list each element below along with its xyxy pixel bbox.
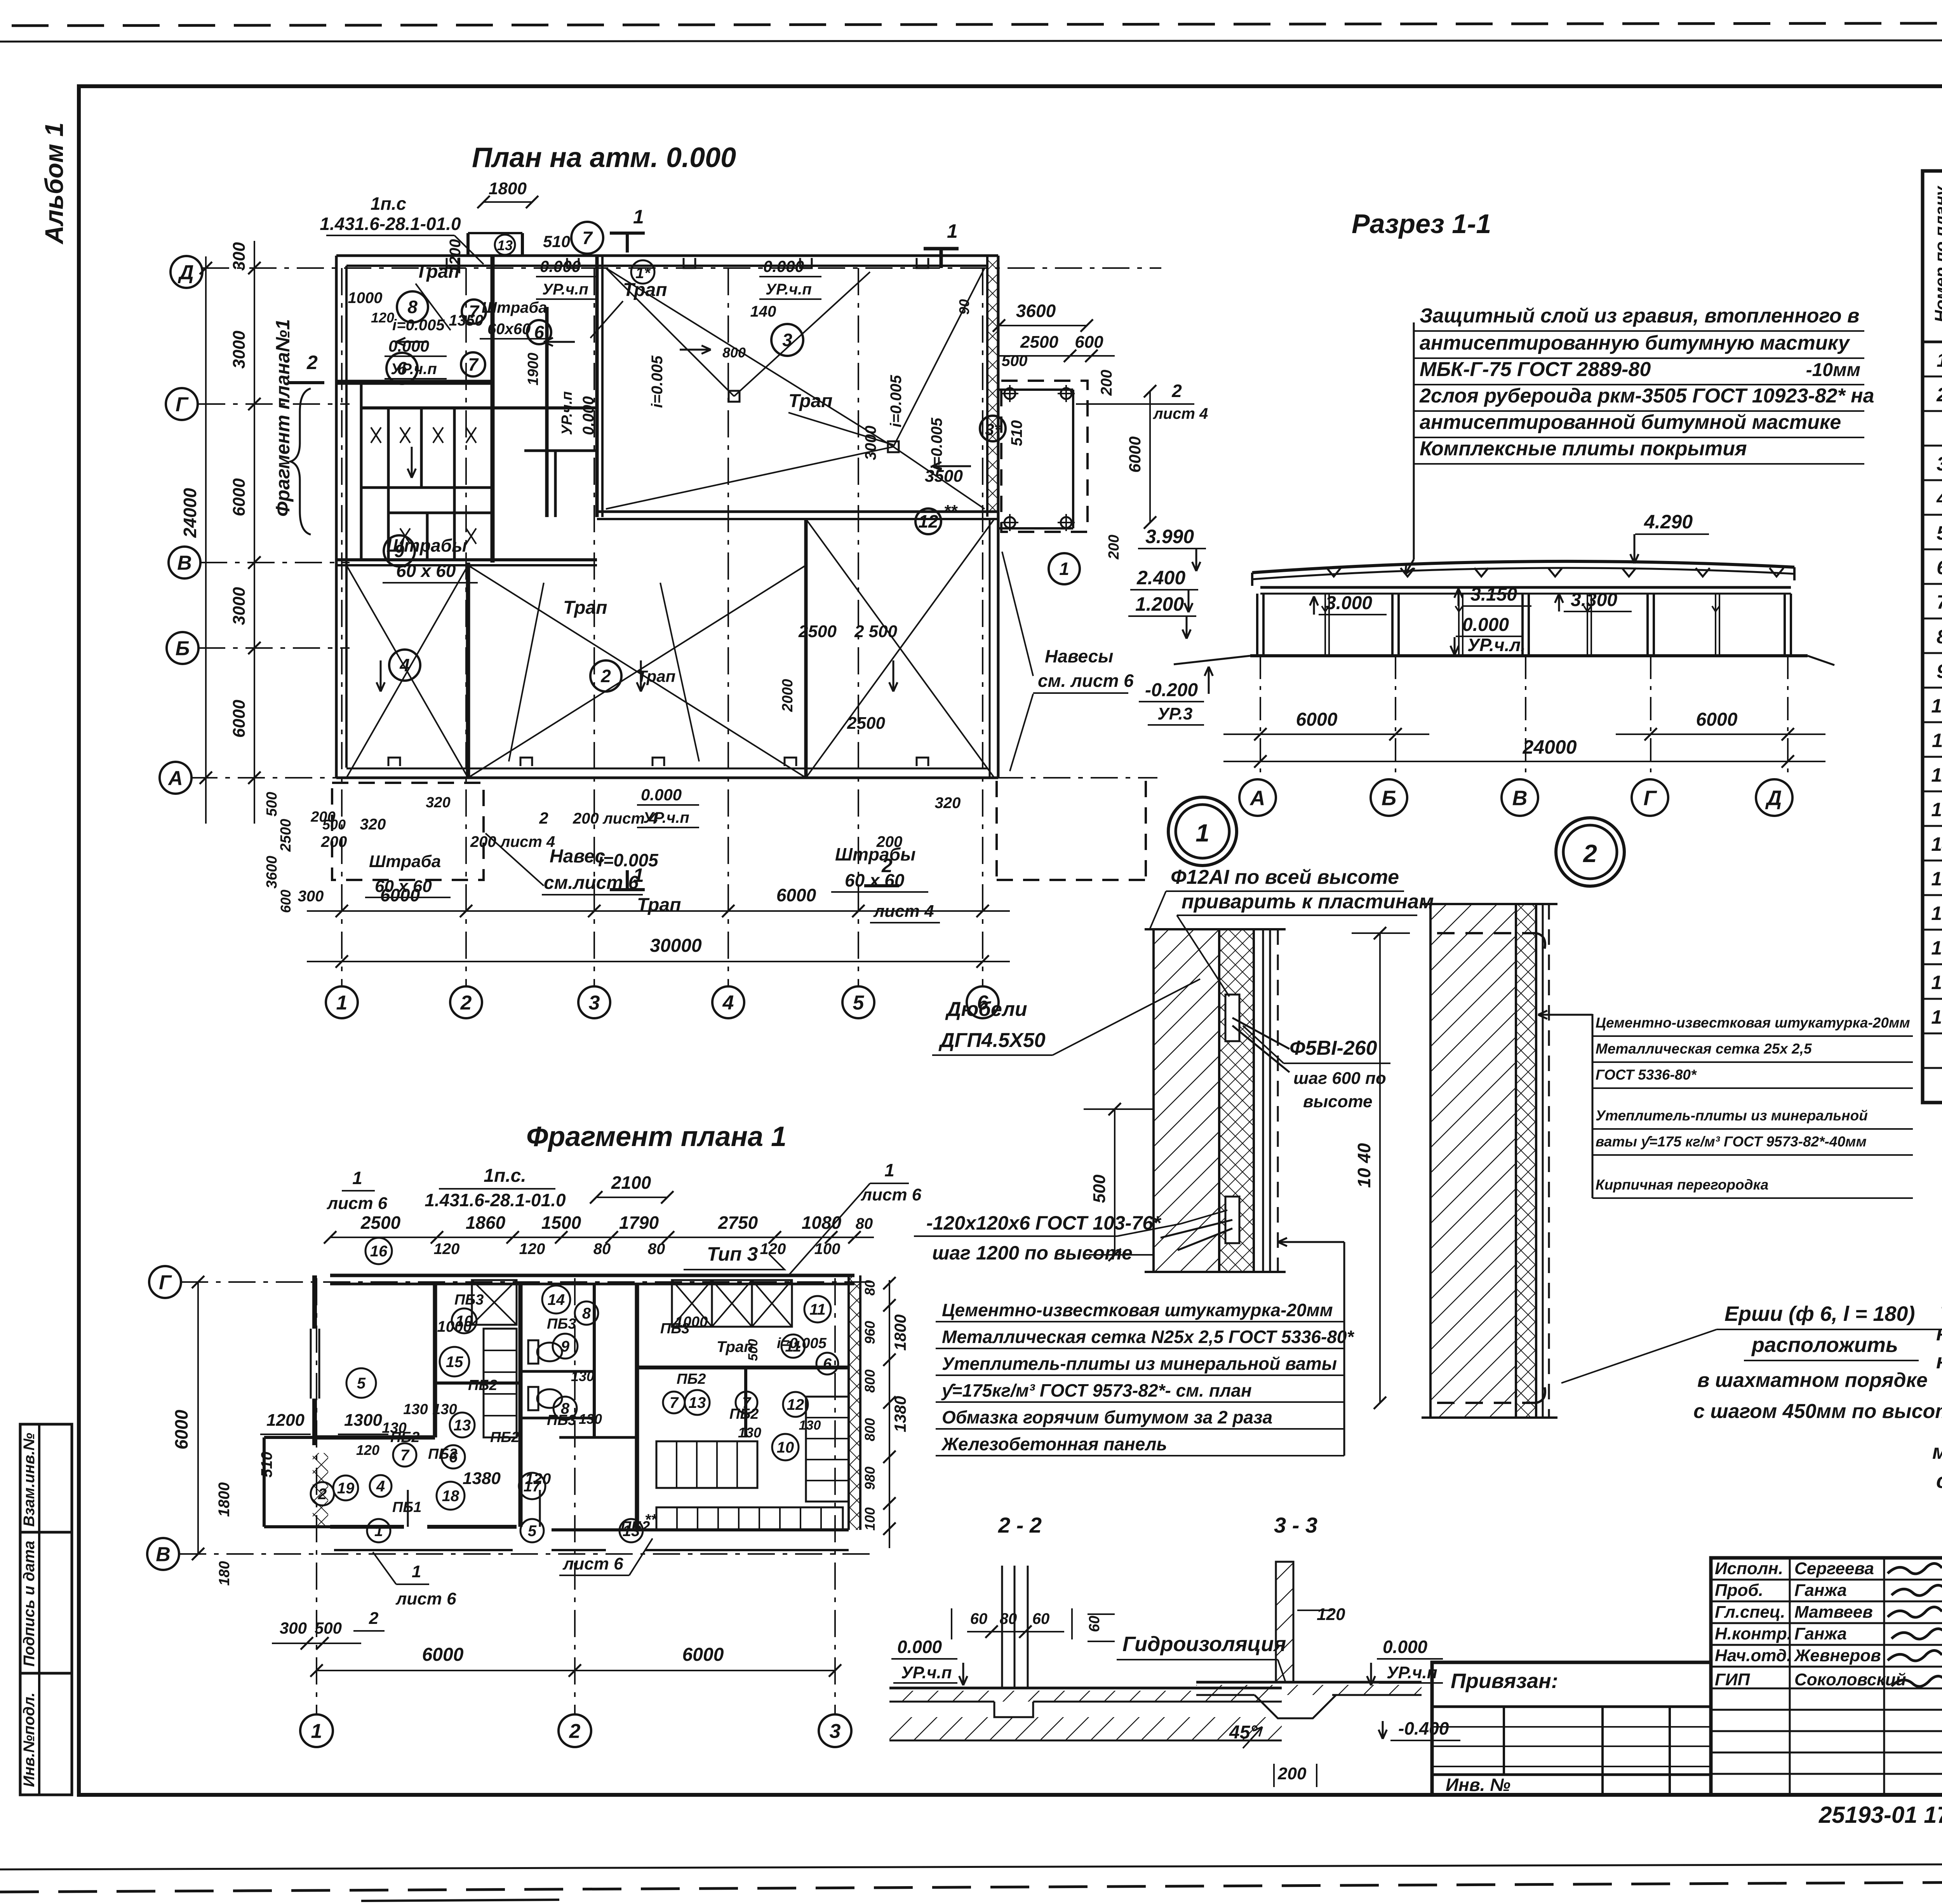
wall sanitary bottom [336, 560, 597, 565]
detail 3-3 drawing [1117, 1562, 1460, 1787]
svg-text:130: 130 [432, 1401, 457, 1418]
svg-text:19: 19 [337, 1480, 355, 1497]
table row 9 [1937, 624, 1942, 648]
svg-text:УР.ч.л.: УР.ч.л. [1467, 635, 1526, 655]
room circle 7 [461, 352, 485, 376]
svg-text:120: 120 [525, 1470, 551, 1488]
svg-text:ДГП4.5Х50: ДГП4.5Х50 [938, 1029, 1046, 1052]
svg-text:i=0.005: i=0.005 [928, 418, 945, 470]
svg-text:13: 13 [1931, 799, 1942, 820]
section mark 1 bottom [610, 864, 645, 890]
wall pier marks top [388, 258, 928, 766]
svg-text:60 х 60: 60 х 60 [396, 561, 456, 581]
fragment top leaders [327, 1160, 922, 1275]
svg-text:Нач.отд.: Нач.отд. [1715, 1646, 1791, 1665]
circle 1 star top [631, 260, 654, 284]
fragment axis G [149, 1266, 874, 1298]
wall exterior left [336, 256, 346, 778]
fragment room circle 10 [772, 1434, 799, 1460]
svg-text:ПБ2: ПБ2 [677, 1371, 706, 1387]
wall vert 1262 [491, 256, 495, 563]
svg-text:1: 1 [412, 1562, 421, 1581]
svg-text:1800: 1800 [489, 179, 527, 198]
elev left stack [1128, 526, 1213, 725]
svg-text:Утеплитель-плиты из минерально: Утеплитель-плиты из минеральной ваты [942, 1354, 1337, 1374]
big circle 1 [1168, 797, 1237, 866]
title signatures [1715, 1559, 1942, 1689]
wall exterior right hatched [987, 256, 998, 778]
room circle 7 [571, 222, 603, 254]
fragment room circle 14 [542, 1286, 570, 1313]
svg-text:Штрабы: Штрабы [835, 844, 915, 864]
svg-text:Соколовский: Соколовский [1794, 1670, 1906, 1689]
svg-text:3000: 3000 [862, 426, 879, 460]
section beam line [1260, 587, 1791, 594]
svg-text:лист 4: лист 4 [873, 902, 934, 921]
svg-text:3: 3 [589, 992, 600, 1014]
svg-text:2500: 2500 [360, 1212, 401, 1233]
svg-text:А: А [1249, 786, 1265, 810]
wall exterior top [336, 256, 998, 266]
svg-text:1: 1 [884, 1160, 894, 1180]
svg-text:800: 800 [722, 345, 746, 361]
svg-text:0.000: 0.000 [763, 257, 804, 275]
svg-text:60: 60 [1032, 1610, 1050, 1627]
svg-text:80: 80 [593, 1240, 611, 1258]
axis line A [190, 777, 1157, 779]
svg-text:антисептированную битумную мас: антисептированную битумную мастику [1420, 332, 1851, 354]
svg-text:10 40: 10 40 [1354, 1143, 1374, 1188]
svg-text:6000: 6000 [422, 1644, 464, 1665]
canopy bottom right dashed [997, 781, 1146, 880]
fragment room circle 12 [783, 1392, 808, 1417]
paper bottom edge line [0, 1863, 1942, 1869]
svg-text:120: 120 [371, 310, 394, 326]
svg-text:11: 11 [809, 1301, 826, 1318]
svg-text:120: 120 [519, 1240, 545, 1258]
svg-text:1900: 1900 [525, 353, 541, 386]
svg-text:1380: 1380 [891, 1396, 909, 1432]
dim left column [180, 241, 261, 824]
table row 1 [1937, 347, 1942, 371]
room circle 8 [397, 291, 428, 322]
left stamp boxes [20, 1424, 72, 1795]
svg-text:ПБ2: ПБ2 [729, 1406, 759, 1422]
axis circle 5 [842, 986, 874, 1018]
section axis circle В [1502, 779, 1538, 816]
svg-text:1350: 1350 [449, 312, 484, 329]
svg-text:12: 12 [1931, 764, 1942, 786]
svg-text:Штраба: Штраба [369, 852, 441, 871]
table row 18 [1931, 935, 1942, 959]
section axis circle Г [1632, 779, 1668, 816]
svg-text:3.000: 3.000 [1326, 593, 1372, 613]
svg-text:Ганжа: Ганжа [1794, 1581, 1847, 1600]
svg-text:960: 960 [862, 1321, 878, 1344]
svg-text:3000: 3000 [230, 331, 249, 369]
svg-text:130: 130 [799, 1418, 821, 1433]
svg-text:в шахматном порядке: в шахматном порядке [1697, 1369, 1928, 1392]
svg-text:2: 2 [306, 352, 318, 373]
svg-text:3: 3 [1937, 453, 1942, 475]
fragment axis circle 2 [559, 1714, 591, 1747]
fragment room circle 10 [452, 1308, 477, 1333]
svg-text:Дюбели: Дюбели [945, 998, 1027, 1021]
svg-text:1380: 1380 [463, 1469, 501, 1488]
svg-text:Трап: Трап [563, 598, 607, 618]
svg-text:1: 1 [374, 1523, 383, 1540]
svg-text:500: 500 [315, 1619, 342, 1637]
svg-text:5: 5 [853, 992, 865, 1014]
svg-text:Сергеева: Сергеева [1794, 1559, 1874, 1578]
svg-text:6000: 6000 [230, 478, 249, 516]
paper top edge line [0, 40, 1942, 42]
axis line 3 vertical [593, 268, 595, 987]
fragment room circle 16 [365, 1238, 392, 1264]
fragment door arcs [334, 1490, 849, 1550]
fragment room circle 11 [804, 1296, 831, 1322]
fragment wall bottom [330, 1527, 849, 1530]
svg-text:i=0.005: i=0.005 [392, 317, 445, 334]
svg-text:Цементно-известковая штукатурк: Цементно-известковая штукатурка-20мм [942, 1300, 1333, 1320]
axis circle Б [167, 632, 198, 664]
privyazan block [1432, 1662, 1711, 1795]
fragment leader list6 bottom [353, 1552, 456, 1631]
fragment room circle 7 [663, 1392, 685, 1413]
fragment axis verticals [317, 1278, 835, 1714]
svg-text:Фрагмент плана 1: Фрагмент плана 1 [526, 1121, 787, 1152]
axis line 5 vertical [858, 268, 859, 987]
svg-text:0.000: 0.000 [388, 337, 429, 355]
svg-text:Взам.инв.№: Взам.инв.№ [21, 1433, 38, 1527]
canopy right dashed [1001, 381, 1088, 532]
svg-text:100: 100 [814, 1240, 840, 1258]
svg-text:1: 1 [352, 1168, 362, 1188]
svg-text:Тип 3: Тип 3 [707, 1243, 758, 1265]
svg-text:Фрагмент плана№1: Фрагмент плана№1 [272, 319, 294, 517]
fragment top dims [324, 1212, 874, 1258]
fragment partitions [317, 1283, 849, 1530]
svg-text:В: В [1512, 786, 1528, 810]
fragment room circle 8 [575, 1301, 598, 1325]
svg-text:**: ** [645, 1511, 658, 1528]
svg-text:Цементно-известковая штукатурк: Цементно-известковая штукатурка-20мм [1596, 1015, 1910, 1031]
svg-text:1: 1 [1195, 819, 1209, 847]
detail 2-2 title [998, 1513, 1042, 1537]
title block frame [1711, 1558, 1942, 1795]
svg-text:130: 130 [571, 1368, 594, 1384]
svg-text:24000: 24000 [180, 488, 200, 538]
fragment room circle 7 [393, 1443, 416, 1467]
svg-text:980: 980 [862, 1467, 878, 1490]
svg-text:УР.ч.п: УР.ч.п [643, 809, 689, 826]
section roof slab [1252, 561, 1794, 586]
slope arrows [376, 338, 971, 692]
svg-text:6000: 6000 [682, 1644, 724, 1665]
paper bottom dashed cut line [0, 1880, 1942, 1892]
svg-text:7: 7 [582, 228, 593, 248]
svg-text:320: 320 [935, 794, 961, 812]
svg-text:6000: 6000 [1296, 709, 1338, 730]
svg-text:Матвеев: Матвеев [1794, 1603, 1873, 1622]
fragment shower boxes [472, 1280, 792, 1327]
svg-text:В: В [156, 1543, 171, 1566]
svg-text:2: 2 [1936, 384, 1942, 406]
svg-text:2500: 2500 [847, 714, 885, 733]
fragment room circle 4 [370, 1475, 392, 1497]
axis circle А [160, 762, 191, 794]
svg-text:Ф12АI по всей высоте: Ф12АI по всей высоте [1171, 866, 1399, 888]
detail1 dim 500 [1084, 1103, 1154, 1261]
svg-text:ПБ2: ПБ2 [490, 1429, 519, 1446]
svg-text:3*: 3* [985, 420, 1001, 439]
fragment room circle 15 [440, 1347, 469, 1376]
dims top right canopy [956, 299, 1208, 560]
svg-text:8: 8 [1937, 626, 1942, 648]
svg-text:500: 500 [1002, 352, 1028, 369]
svg-text:лист 6: лист 6 [861, 1185, 922, 1204]
fragment tip3 label [684, 1243, 785, 1270]
svg-text:1.431.6-28.1-01.0: 1.431.6-28.1-01.0 [320, 214, 461, 234]
svg-text:1300: 1300 [344, 1411, 382, 1430]
level mark rotated [559, 391, 597, 435]
svg-text:1*: 1* [635, 265, 651, 282]
svg-text:200: 200 [1098, 370, 1115, 396]
svg-text:2: 2 [1171, 381, 1182, 401]
table row 2 [1936, 383, 1942, 406]
svg-text:ной сталью δ=0,6мм по войл: ной сталью δ=0,6мм по войлоку, смоченном… [1936, 1322, 1942, 1345]
svg-text:14: 14 [1931, 833, 1942, 855]
fragment left dims [216, 1411, 407, 1586]
svg-text:11: 11 [1932, 730, 1942, 751]
svg-text:2000: 2000 [780, 679, 796, 712]
table row 14 [1931, 796, 1942, 821]
table row 12 [1932, 727, 1942, 752]
table row 11 [1931, 693, 1942, 717]
table row 6 [1937, 520, 1942, 544]
table row 13 [1931, 762, 1942, 786]
elev interior marks [1310, 584, 1632, 657]
svg-text:0.000: 0.000 [1462, 615, 1509, 635]
svg-text:ГИП: ГИП [1715, 1670, 1751, 1689]
svg-text:19: 19 [1931, 1006, 1942, 1028]
svg-text:13: 13 [689, 1394, 706, 1411]
svg-text:60 х 60: 60 х 60 [845, 870, 905, 890]
room circle 7 [462, 300, 486, 324]
navesy label [1002, 552, 1134, 771]
svg-text:8: 8 [582, 1305, 591, 1322]
dim 1040 vertical [1352, 927, 1410, 1409]
svg-text:2 500: 2 500 [854, 622, 898, 641]
svg-text:300: 300 [298, 888, 324, 905]
wall room1 left [804, 519, 808, 778]
svg-text:Жевнеров: Жевнеров [1794, 1646, 1881, 1665]
svg-text:лист 6: лист 6 [327, 1194, 388, 1213]
section dims [1223, 656, 1825, 779]
leader 1ps top [320, 193, 484, 264]
svg-text:Инв.№подл.: Инв.№подл. [21, 1692, 38, 1787]
svg-text:2слоя рубероида ркм-3505 ГОСТ: 2слоя рубероида ркм-3505 ГОСТ 10923-82* … [1419, 385, 1874, 407]
svg-text:Альбом 1: Альбом 1 [40, 122, 68, 245]
svg-text:лист 6: лист 6 [562, 1554, 623, 1573]
room circle 1 [1049, 553, 1080, 584]
svg-text:**: ** [944, 502, 958, 521]
svg-text:120: 120 [760, 1240, 786, 1258]
svg-text:60: 60 [970, 1610, 988, 1627]
table row 5 [1936, 485, 1942, 510]
svg-text:12: 12 [787, 1396, 804, 1413]
album label [40, 122, 68, 245]
fragment pb labels [390, 1292, 759, 1535]
svg-text:Г: Г [159, 1272, 172, 1294]
svg-text:2500: 2500 [798, 622, 837, 641]
axis line 6 vertical [982, 268, 983, 987]
svg-text:1: 1 [1059, 559, 1069, 579]
svg-text:30000: 30000 [650, 935, 702, 956]
svg-text:см. лист 6: см. лист 6 [1038, 671, 1134, 691]
svg-text:лист 6: лист 6 [395, 1589, 456, 1608]
below title texts [1818, 1800, 1942, 1828]
fragment axis circle 1 [300, 1714, 333, 1747]
label 120x120 [914, 1210, 1227, 1264]
svg-text:800: 800 [862, 1369, 878, 1393]
svg-text:800: 800 [862, 1418, 878, 1441]
fragment leader 13 [559, 1511, 658, 1575]
table row 7 [1937, 554, 1942, 579]
svg-text:Металлическая сетка N25х 2,5 Г: Металлическая сетка N25х 2,5 ГОСТ 5336-8… [942, 1327, 1355, 1347]
svg-text:Ерши (ф 6, l = 180): Ерши (ф 6, l = 180) [1724, 1302, 1915, 1326]
explication table grid [1923, 171, 1942, 1103]
svg-text:2: 2 [600, 666, 611, 686]
axis circle Г [166, 388, 198, 420]
svg-text:2500: 2500 [278, 819, 294, 852]
big circle 2 [1556, 818, 1624, 886]
svg-text:расположить: расположить [1751, 1333, 1898, 1357]
svg-text:Обмазка горячим битумом за 2 р: Обмазка горячим битумом за 2 раза [942, 1407, 1272, 1427]
svg-text:1: 1 [633, 206, 644, 228]
svg-text:16: 16 [370, 1243, 388, 1260]
svg-text:300: 300 [280, 1619, 307, 1637]
svg-text:510: 510 [543, 232, 570, 251]
svg-text:60х60: 60х60 [487, 321, 531, 338]
fragment wall left [311, 1275, 319, 1445]
svg-text:100: 100 [862, 1507, 878, 1531]
svg-text:ПБ2: ПБ2 [390, 1429, 419, 1446]
svg-text:1000: 1000 [437, 1318, 472, 1335]
svg-text:Г: Г [176, 394, 189, 416]
section mark 1 top right [924, 220, 959, 268]
svg-text:Б: Б [176, 638, 190, 660]
svg-text:В: В [177, 552, 192, 575]
svg-text:1800: 1800 [891, 1314, 909, 1350]
axis line 1 vertical [341, 268, 343, 987]
svg-text:0.000: 0.000 [641, 786, 682, 804]
room circle 3 [771, 324, 803, 356]
svg-text:200 лист 4: 200 лист 4 [470, 833, 555, 850]
svg-text:Трап: Трап [637, 895, 681, 915]
slope diagonals rooms 1 2 4 [346, 519, 994, 778]
svg-text:90: 90 [956, 299, 972, 315]
svg-text:приварить к пластинам: приварить к пластинам [1182, 890, 1434, 913]
svg-text:i=0.005: i=0.005 [649, 355, 666, 408]
svg-text:13: 13 [454, 1417, 471, 1434]
svg-text:510: 510 [258, 1452, 275, 1478]
svg-text:ПБ3: ПБ3 [547, 1412, 576, 1428]
fragment plan rotated label [272, 319, 311, 535]
fragment lockers left [484, 1329, 517, 1437]
fragment room circle 5 [346, 1368, 376, 1398]
svg-text:24000: 24000 [1522, 736, 1577, 758]
svg-text:120: 120 [434, 1240, 460, 1258]
fragment room circle 18 [437, 1482, 465, 1510]
svg-text:7: 7 [1937, 591, 1942, 613]
svg-text:300: 300 [230, 242, 249, 271]
svg-text:14: 14 [548, 1291, 565, 1308]
fragment wall right [849, 1275, 860, 1530]
svg-text:10: 10 [1931, 695, 1942, 717]
svg-text:Гл.спец.: Гл.спец. [1715, 1603, 1785, 1622]
svg-text:План на атм. 0.000: План на атм. 0.000 [472, 142, 736, 173]
roof panel ticks [1327, 568, 1784, 577]
svg-text:ГОСТ 5336-80*: ГОСТ 5336-80* [1596, 1067, 1697, 1083]
svg-text:18: 18 [1931, 972, 1942, 993]
partitions room7 [492, 408, 597, 517]
svg-text:6: 6 [1937, 557, 1942, 578]
svg-text:шаг 1200 по высоте: шаг 1200 по высоте [932, 1242, 1133, 1264]
svg-text:i=0.005: i=0.005 [887, 375, 905, 427]
svg-text:120: 120 [356, 1442, 379, 1458]
svg-text:ПБ2: ПБ2 [468, 1377, 497, 1394]
svg-text:УР.ч.п: УР.ч.п [766, 281, 812, 298]
svg-text:1200: 1200 [447, 239, 464, 274]
svg-text:Исполн.: Исполн. [1715, 1559, 1783, 1578]
svg-text:6: 6 [823, 1355, 832, 1373]
svg-text:500: 500 [322, 817, 346, 833]
fragment room circle 6 [442, 1445, 465, 1469]
svg-text:320: 320 [360, 816, 386, 833]
svg-text:УР.ч.п: УР.ч.п [542, 281, 588, 298]
svg-text:6000: 6000 [1696, 709, 1738, 730]
wall room4 right [466, 563, 470, 778]
svg-text:Разрез 1-1: Разрез 1-1 [1352, 209, 1491, 239]
svg-text:1: 1 [1937, 349, 1942, 371]
svg-text:1000: 1000 [348, 289, 383, 307]
svg-text:Ганжа: Ганжа [1794, 1624, 1847, 1643]
table row 19 [1931, 969, 1942, 994]
svg-text:2750: 2750 [718, 1212, 758, 1233]
svg-text:80: 80 [648, 1240, 665, 1258]
table row 15 [1931, 831, 1942, 855]
fragment room circle 2 [311, 1482, 334, 1505]
svg-text:130: 130 [738, 1425, 761, 1441]
svg-text:7: 7 [670, 1394, 679, 1411]
fragment axis V [147, 1538, 874, 1570]
table row 8 [1937, 589, 1942, 613]
fragment dim bottom [272, 1619, 841, 1677]
svg-text:-0.200: -0.200 [1145, 680, 1198, 700]
svg-text:600: 600 [278, 890, 294, 913]
wall room3 bottom [597, 512, 998, 519]
svg-text:УР.ч.п: УР.ч.п [901, 1663, 952, 1682]
svg-text:3.150: 3.150 [1470, 584, 1517, 605]
svg-text:17: 17 [1931, 937, 1942, 959]
svg-text:Ф5ВI-260: Ф5ВI-260 [1289, 1037, 1377, 1059]
axis circle 4 [712, 986, 744, 1018]
svg-text:4: 4 [1936, 488, 1942, 509]
svg-text:Инв. №: Инв. № [1446, 1775, 1510, 1795]
svg-text:Штраба: Штраба [482, 299, 547, 316]
svg-text:1п.с.: 1п.с. [484, 1165, 526, 1186]
